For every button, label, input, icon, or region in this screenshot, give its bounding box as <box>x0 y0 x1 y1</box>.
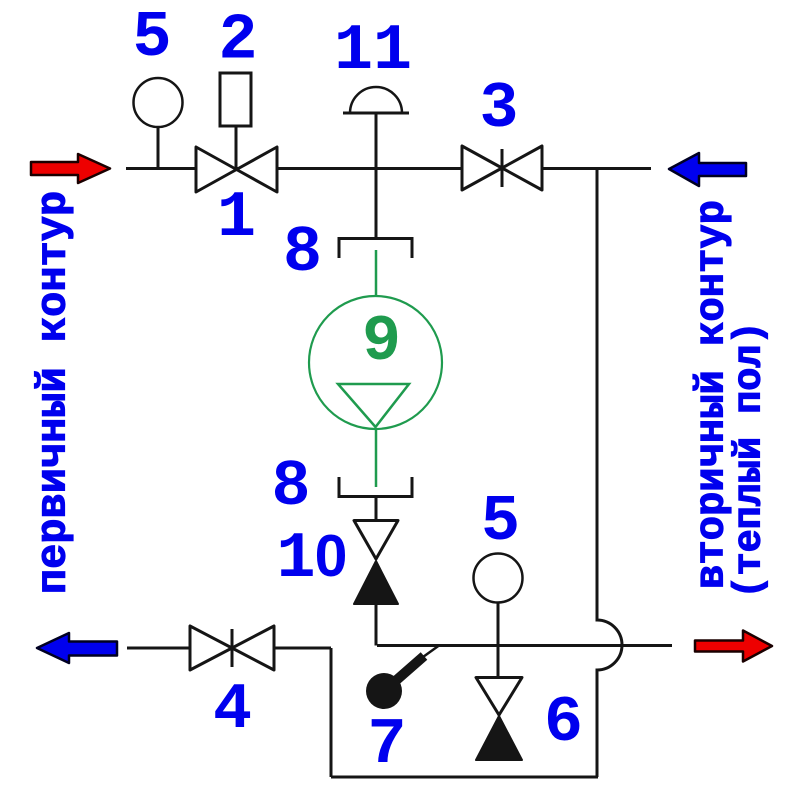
gauge 5 top-left circle <box>134 78 183 127</box>
svg-text:1: 1 <box>276 522 315 596</box>
arrow blue top-right <box>669 153 746 186</box>
wire bottom mid pipe <box>377 644 672 647</box>
svg-text:5: 5 <box>132 1 171 75</box>
union 8 top <box>339 239 412 259</box>
wire left leg <box>330 648 333 777</box>
air vent 11 dome <box>350 87 402 113</box>
sensor 7 thick stem <box>392 656 424 684</box>
wire union to check valve 10 <box>375 497 378 522</box>
valve 3 <box>462 146 542 190</box>
svg-text:7: 7 <box>367 708 406 782</box>
arrow red top-left <box>31 154 110 183</box>
head 2 rectangle <box>220 73 251 126</box>
sensor 7 bulb <box>366 673 402 709</box>
svg-text:0: 0 <box>315 523 348 589</box>
pump 9 circle <box>309 296 442 429</box>
arrow blue bottom-left <box>37 633 117 663</box>
svg-text:первичный контур: первичный контур <box>30 191 78 594</box>
check valve 10 <box>354 521 398 560</box>
wire thin diagonal to sensor 7 <box>423 646 439 658</box>
wire check valve 10 to pipe <box>375 604 378 646</box>
pump 9 triangle <box>338 384 409 427</box>
svg-text:8: 8 <box>283 216 322 290</box>
wire top pipe <box>126 167 651 170</box>
wire valve-4 pipe <box>127 647 331 650</box>
pump 9 inlet green wire <box>375 250 378 297</box>
svg-text:8: 8 <box>271 450 310 524</box>
wire stem of head 2 to valve 1 <box>235 126 238 169</box>
svg-text:6: 6 <box>544 686 583 760</box>
svg-text:2: 2 <box>218 4 257 78</box>
svg-text:3: 3 <box>479 72 518 146</box>
wire right vertical with hop <box>597 169 622 778</box>
svg-text:11: 11 <box>334 14 412 88</box>
wire vertical from dome 11 through pipe to union <box>375 113 378 238</box>
pump 9 outlet green wire <box>375 429 378 487</box>
svg-text:4: 4 <box>213 673 252 747</box>
valve 1 <box>196 147 277 192</box>
wire stem of gauge 5 top-left <box>157 127 160 169</box>
svg-text:9: 9 <box>362 305 401 379</box>
valve 4 <box>190 626 274 670</box>
arrow red bottom-right <box>695 631 772 662</box>
wire stem of gauge 5 bottom through pipe to valve 6 <box>497 602 500 677</box>
gauge 5 bottom circle <box>474 554 523 603</box>
valve 6 <box>476 678 522 716</box>
union 8 bottom <box>339 477 412 497</box>
wire bottom line <box>331 776 598 779</box>
svg-text:1: 1 <box>217 181 256 255</box>
svg-text:(теплый пол): (теплый пол) <box>728 321 772 598</box>
svg-text:5: 5 <box>481 485 520 559</box>
